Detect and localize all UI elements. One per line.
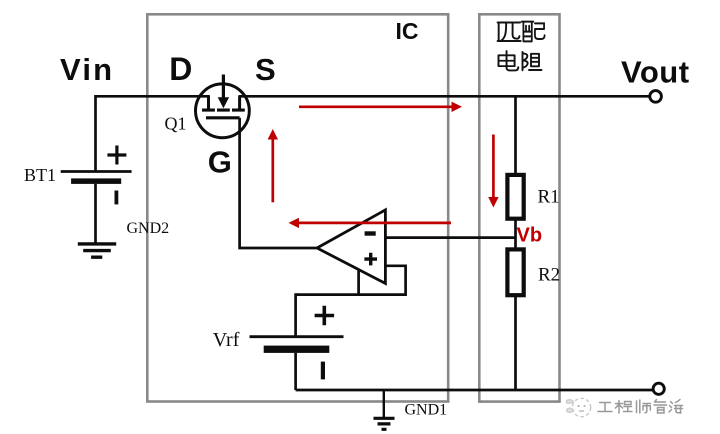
- current arrow: drain-source to Vout (red, right): [299, 102, 462, 112]
- label char 电 (matching box row2): [499, 51, 519, 70]
- svg-text:R2: R2: [538, 265, 560, 286]
- svg-text:Vb: Vb: [517, 225, 543, 247]
- current arrow: feedback to op-amp (red, left): [289, 218, 452, 228]
- svg-text:BT1: BT1: [24, 165, 56, 185]
- 看: [654, 400, 667, 414]
- terminal: Vout: [650, 91, 662, 103]
- matching-resistor box: [479, 14, 559, 401]
- watermark text 工程师看海: [598, 400, 683, 414]
- 程: [616, 401, 633, 414]
- wire: non-inverting input stub: [357, 270, 360, 295]
- wire: Vin down to battery BT1: [94, 95, 97, 171]
- battery BT1: [61, 146, 132, 205]
- svg-text:Vin: Vin: [60, 52, 114, 87]
- terminal: bottom right: [653, 383, 664, 394]
- svg-text:Vout: Vout: [621, 54, 690, 89]
- wire: Q1 gate to op-amp output: [240, 118, 318, 248]
- svg-text:D: D: [169, 51, 192, 87]
- svg-text:R1: R1: [538, 187, 560, 208]
- wire: op-amp inverting input to node Vb: [385, 236, 515, 239]
- watermark logo: [567, 398, 591, 416]
- label char 匹 (matching box row1): [498, 23, 521, 42]
- wire: R1 to R2 through node Vb: [514, 219, 517, 250]
- ground GND2: [78, 244, 116, 257]
- wire: bottom rail: [296, 389, 653, 392]
- wire: Vout rail down to R1: [514, 96, 517, 175]
- label char 阻 (matching box row2): [523, 52, 542, 70]
- ground GND1: [374, 390, 395, 429]
- IC box: [147, 14, 448, 401]
- wire: Vin node to Q1 drain: [96, 95, 210, 98]
- resistor R1: [507, 175, 523, 219]
- transistor Q1 (PMOS pass FET): [196, 75, 250, 138]
- svg-text:Vrf: Vrf: [213, 329, 240, 351]
- 师: [637, 400, 651, 413]
- 工: [598, 403, 612, 412]
- svg-text:S: S: [255, 52, 276, 87]
- label char 配 (matching box row1): [522, 22, 545, 42]
- op-amp U1: [317, 210, 385, 284]
- wire: op-amp non-inverting input step: [296, 266, 406, 295]
- svg-text:GND2: GND2: [127, 220, 170, 237]
- wire: R2 to bottom rail: [514, 295, 517, 390]
- resistor R2: [507, 249, 523, 295]
- wire: Q1 source to Vout terminal: [239, 95, 650, 98]
- wire: BT1 to GND2: [94, 184, 97, 243]
- svg-text:IC: IC: [396, 18, 419, 44]
- current arrow: gate drive (red, up): [268, 129, 278, 202]
- current arrow: through R1 (red, down): [488, 135, 498, 208]
- svg-text:G: G: [208, 144, 232, 179]
- svg-text:Q1: Q1: [165, 114, 187, 134]
- battery Vrf: [250, 293, 344, 390]
- svg-text:GND1: GND1: [405, 402, 448, 419]
- 海: [669, 400, 683, 414]
